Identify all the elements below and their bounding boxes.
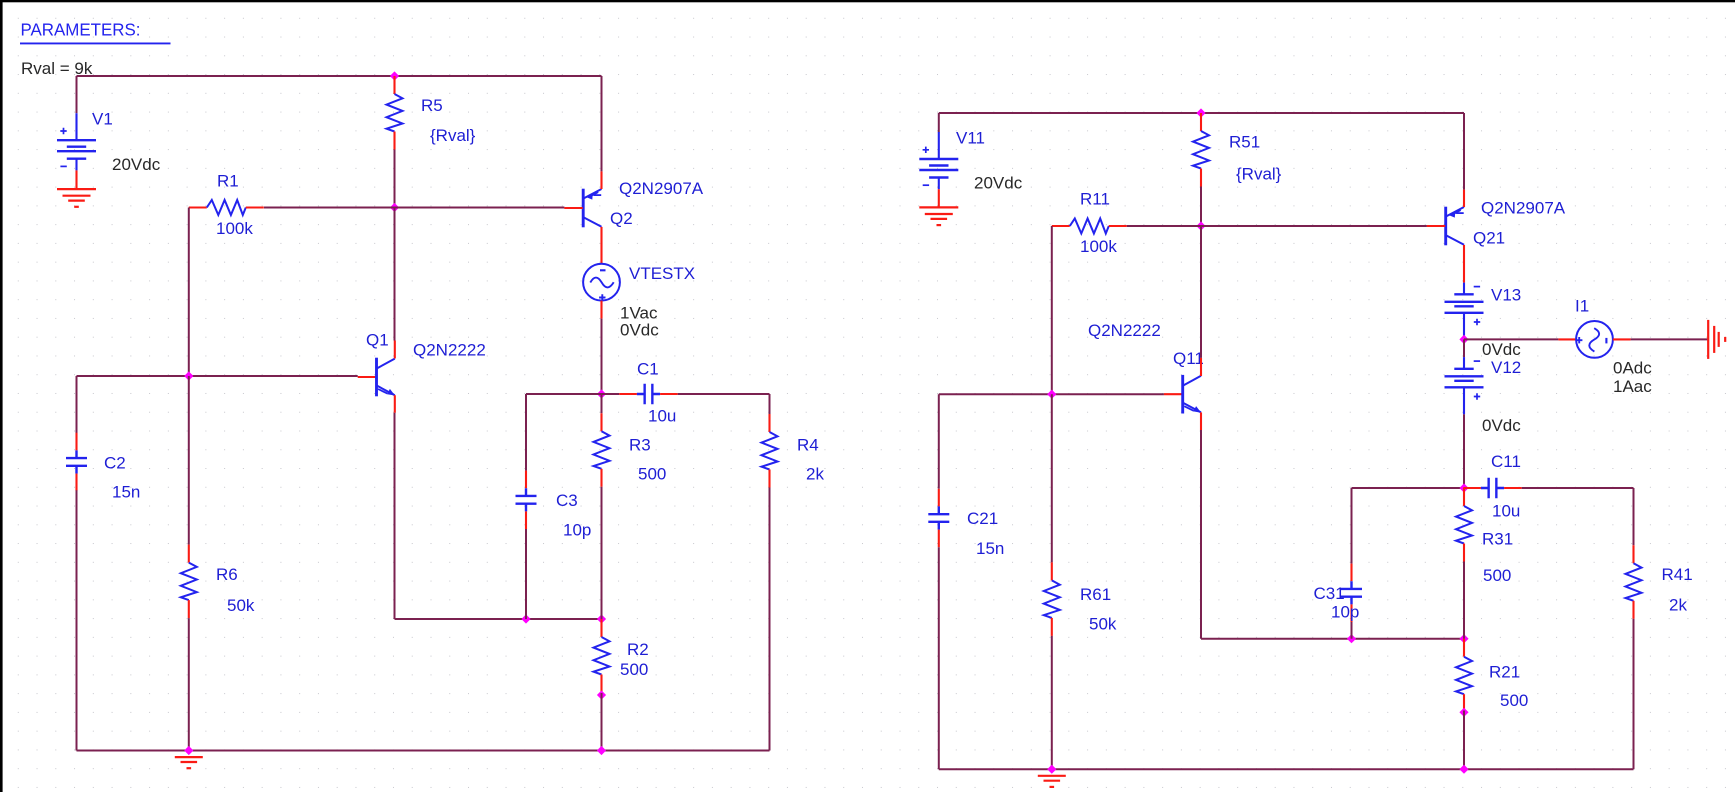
svg-text:C31: C31	[1314, 584, 1345, 603]
wire node to R61	[1051, 394, 1053, 562]
ground right circuit	[1038, 776, 1066, 787]
junction base row / R1 vertical / R6	[184, 371, 193, 380]
dc source V13	[1445, 283, 1484, 340]
wire C11 to R41 corner	[1522, 487, 1634, 489]
svg-text:C3: C3	[556, 491, 578, 510]
wire Q21 base pin	[1427, 225, 1445, 227]
svg-text:{Rval}: {Rval}	[430, 126, 476, 145]
junction bottom rail / ground right circuit	[1047, 765, 1056, 774]
wire node to C1	[602, 393, 620, 395]
wire C2 to bottom rail	[76, 490, 78, 750]
capacitor C2	[66, 433, 87, 491]
svg-text:V12: V12	[1491, 358, 1521, 377]
transistor Q11 Q2N2222 (NPN)	[1164, 375, 1201, 414]
wire bottom rail right circuit	[939, 768, 1634, 770]
svg-text:R3: R3	[629, 436, 651, 455]
wire Q2 collector to VTESTX	[600, 227, 602, 264]
ground V11	[919, 207, 958, 225]
wire C31 top branch	[1351, 488, 1353, 564]
wire node row to C3 corner	[526, 393, 602, 395]
wire R51 bottom to base row	[1200, 187, 1202, 227]
wire node to V12	[1463, 339, 1465, 357]
svg-text:Q1: Q1	[366, 331, 389, 350]
svg-text:R61: R61	[1080, 585, 1111, 604]
resistor R4	[762, 414, 778, 488]
svg-text:R51: R51	[1229, 133, 1260, 152]
page border top	[0, 0, 1735, 2]
svg-text:10u: 10u	[1492, 502, 1520, 521]
wire R6 to bottom rail	[188, 618, 190, 750]
wire V1 to top rail	[76, 76, 78, 113]
svg-text:50k: 50k	[227, 596, 255, 615]
resistor R6	[181, 545, 197, 619]
wire V1 minus pin	[75, 170, 77, 189]
wire C1 to R4 corner	[678, 393, 770, 395]
capacitor C11	[1463, 478, 1521, 498]
wire R21 to bottom rail	[1463, 711, 1465, 770]
svg-text:I1: I1	[1575, 297, 1589, 316]
svg-text:100k: 100k	[216, 219, 253, 238]
svg-text:15n: 15n	[976, 539, 1004, 558]
wire Q1 collector pin	[394, 341, 396, 359]
capacitor C21	[928, 489, 949, 547]
svg-text:Q2: Q2	[610, 209, 633, 228]
wire Q21 emitter pin	[1463, 190, 1465, 207]
svg-text:100k: 100k	[1080, 237, 1117, 256]
svg-text:20Vdc: 20Vdc	[974, 174, 1023, 193]
junction R51/R11/Q11 collector/Q21 base	[1196, 221, 1205, 230]
resistor R51	[1193, 113, 1209, 187]
svg-text:V13: V13	[1491, 286, 1521, 305]
wire R1 corner down to Q1 base node	[188, 208, 190, 377]
resistor R5	[387, 76, 403, 150]
dc source V12	[1445, 357, 1484, 414]
wire top rail left circuit	[77, 75, 602, 77]
wire V12 to C11 row	[1463, 414, 1465, 488]
svg-text:10p: 10p	[563, 521, 591, 540]
svg-text:{Rval}: {Rval}	[1236, 165, 1282, 184]
svg-text:VTESTX: VTESTX	[629, 264, 695, 283]
junction R5/R1/Q1 collector/Q2 base	[390, 203, 399, 212]
wire feedback row right circuit	[1201, 638, 1464, 640]
svg-text:R41: R41	[1662, 565, 1693, 584]
transistor Q2 Q2N2907A (PNP)	[564, 189, 601, 228]
wire R3 to feedback row	[601, 487, 603, 619]
wire Q11 emitter pin	[1200, 412, 1202, 430]
wire R11 to Q21 base	[1127, 225, 1427, 227]
ground right of I1	[1708, 320, 1725, 359]
wire V11 minus pin	[938, 189, 940, 207]
svg-text:C1: C1	[637, 360, 659, 379]
junction V13/V12/I1 node	[1459, 335, 1468, 344]
wire Q11 emitter down	[1200, 430, 1202, 639]
svg-text:50k: 50k	[1089, 615, 1117, 634]
junction C3 bottom	[521, 614, 530, 623]
wire I1 right pin	[1613, 338, 1631, 340]
junction R2 bottom node	[597, 690, 606, 699]
svg-text:Q2N2907A: Q2N2907A	[619, 179, 704, 198]
resistor R41	[1626, 545, 1642, 619]
junction R51 top / top rail	[1196, 108, 1205, 117]
svg-text:1Aac: 1Aac	[1613, 377, 1652, 396]
wire Q1 emitter pin	[394, 395, 396, 413]
junction C31 bottom	[1347, 634, 1356, 643]
wire VTESTX to node	[601, 319, 603, 394]
ground left circuit	[175, 757, 203, 768]
svg-text:C11: C11	[1491, 452, 1521, 471]
wire R1 to Q2 base	[264, 207, 564, 209]
svg-text:2k: 2k	[806, 465, 824, 484]
resistor R11	[1052, 219, 1127, 234]
resistor R2	[594, 619, 610, 693]
junction VTESTX/C1/R3/C3 row	[597, 389, 606, 398]
wire left branch to C21	[938, 394, 940, 489]
wire Q11 collector pin	[1200, 358, 1202, 376]
junction base row / R11 vertical / R61	[1047, 390, 1056, 399]
wire node to I1	[1464, 338, 1558, 340]
capacitor C3	[516, 471, 537, 529]
svg-text:500: 500	[638, 465, 666, 484]
resistor R61	[1044, 562, 1060, 636]
svg-text:0Vdc: 0Vdc	[1482, 340, 1521, 359]
junction R21 bottom node	[1459, 708, 1468, 717]
wire I1 to ground	[1631, 338, 1709, 340]
wire V11 stem	[938, 113, 940, 132]
wire corner to R4	[769, 394, 771, 414]
svg-text:V11: V11	[956, 129, 985, 148]
wire Q2 emitter pin	[600, 171, 602, 189]
capacitor C1	[619, 384, 677, 404]
junction R5 top / top rail	[390, 71, 399, 80]
wire C3 bottom branch	[525, 529, 527, 619]
dc source V11	[919, 132, 958, 189]
junction R3 bottom / R2 top	[597, 614, 606, 623]
svg-text:10u: 10u	[648, 407, 676, 426]
ground V1	[57, 189, 96, 207]
wire node to R6	[188, 376, 190, 545]
svg-text:Q2N2907A: Q2N2907A	[1481, 199, 1566, 218]
svg-text:Q2N2222: Q2N2222	[1088, 321, 1161, 340]
wire R61 to bottom rail	[1051, 636, 1053, 769]
wire VTESTX bottom pin	[600, 301, 602, 319]
junction R31 bottom / R21 top	[1459, 634, 1468, 643]
junction bottom rail / R2	[597, 746, 606, 755]
wire C3 top branch	[525, 394, 527, 471]
svg-text:0Vdc: 0Vdc	[1482, 416, 1521, 435]
svg-text:2k: 2k	[1669, 596, 1687, 615]
ac source VTESTX	[583, 264, 620, 301]
svg-text:Q11: Q11	[1173, 349, 1204, 368]
svg-text:R21: R21	[1489, 663, 1520, 682]
junction V12/C11/R31	[1459, 483, 1468, 492]
wire R11 corner down	[1051, 226, 1053, 394]
wire Q1 emitter down	[394, 413, 396, 619]
svg-text:R2: R2	[627, 640, 649, 659]
wire bottom rail left circuit	[77, 750, 770, 752]
wire R41 to bottom rail	[1633, 619, 1635, 769]
wire Q1 collector up to base row	[394, 208, 396, 341]
resistor R1	[189, 200, 264, 215]
svg-text:R5: R5	[421, 96, 443, 115]
svg-text:R1: R1	[217, 172, 239, 191]
svg-text:Q2N2222: Q2N2222	[413, 341, 486, 360]
svg-text:0Adc: 0Adc	[1613, 359, 1652, 378]
svg-text:C21: C21	[967, 509, 998, 528]
wire R2 to bottom rail	[601, 693, 603, 751]
svg-text:20Vdc: 20Vdc	[112, 155, 161, 174]
wire Q2 base pin	[564, 207, 582, 209]
resistor R21	[1456, 639, 1472, 713]
svg-text:R4: R4	[797, 436, 819, 455]
page border left	[0, 0, 3, 792]
transistor Q21 Q2N2907A (PNP)	[1427, 207, 1464, 246]
wire Q11 base row	[939, 393, 1164, 395]
svg-text:R31: R31	[1482, 530, 1513, 549]
svg-text:V1: V1	[92, 110, 113, 129]
svg-text:500: 500	[620, 660, 648, 679]
wire top rail right circuit	[939, 112, 1464, 114]
svg-text:R6: R6	[216, 565, 238, 584]
resistor R3	[594, 413, 610, 487]
svg-text:PARAMETERS:: PARAMETERS:	[21, 20, 141, 40]
transistor Q1 Q2N2222 (NPN)	[358, 358, 395, 397]
resistor R31	[1456, 488, 1472, 562]
svg-text:Q21: Q21	[1473, 229, 1505, 248]
wire Q11 collector up	[1200, 226, 1202, 358]
ac current source I1	[1576, 321, 1613, 358]
wire R31 to feedback row	[1463, 562, 1465, 639]
wire R5 bottom to base row	[394, 150, 396, 208]
wire C21 to bottom rail	[938, 547, 940, 769]
svg-text:R11: R11	[1080, 190, 1110, 209]
svg-text:10p: 10p	[1331, 603, 1359, 622]
wire node to R3	[601, 394, 603, 413]
svg-text:500: 500	[1483, 566, 1511, 585]
wire R4 to bottom rail	[769, 488, 771, 751]
wire left branch to C2	[76, 376, 78, 434]
wire top rail down to Q21 emitter	[1463, 113, 1465, 190]
wire C11 row left segment	[1352, 487, 1465, 489]
svg-text:15n: 15n	[112, 483, 140, 502]
wire C31 bottom branch	[1351, 622, 1353, 639]
wire Q21 collector to V13	[1463, 245, 1465, 283]
svg-text:0Vdc: 0Vdc	[620, 321, 659, 340]
wire Q1 base row	[77, 375, 358, 377]
svg-text:C2: C2	[104, 453, 126, 472]
wire top rail down to Q2 emitter	[601, 76, 603, 171]
svg-text:500: 500	[1500, 691, 1528, 710]
wire corner to R41	[1633, 488, 1635, 545]
dc source V1	[57, 113, 96, 170]
wire I1 left pin	[1558, 338, 1576, 340]
junction bottom rail / ground	[184, 746, 193, 755]
capacitor C31	[1341, 564, 1362, 622]
wire feedback row left circuit	[395, 618, 602, 620]
junction bottom rail / R21	[1459, 765, 1468, 774]
